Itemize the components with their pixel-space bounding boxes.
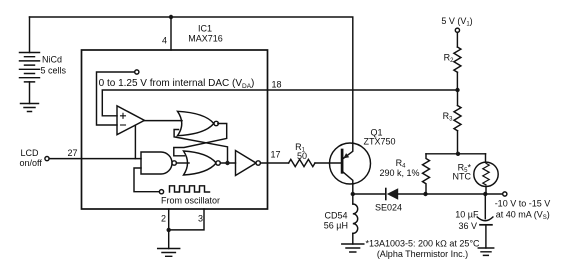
svg-text:SE024: SE024 — [375, 203, 402, 213]
wire comparator enable from LCD line — [134, 125, 136, 158]
wire R3 to divider node — [457, 131, 459, 154]
svg-text:on/off: on/off — [20, 158, 43, 168]
ground under capacitor — [478, 248, 493, 255]
resistor R3 — [454, 106, 461, 131]
wire diode to R4 node — [398, 193, 425, 195]
wire 5V terminal to R2 — [455, 28, 459, 32]
LCD on/off terminal — [45, 157, 49, 161]
resistor R1 — [289, 159, 315, 166]
ground under inductor — [342, 244, 364, 252]
svg-text:MAX716: MAX716 — [188, 34, 223, 44]
svg-text:10 µF: 10 µF — [455, 210, 479, 220]
resistor R2 — [454, 47, 461, 72]
svg-text:50: 50 — [297, 151, 307, 161]
wire G2 output to inverter — [220, 162, 235, 164]
resistor R4 — [423, 154, 430, 194]
node junction NTC bottom / cap — [483, 192, 487, 196]
oscillator square wave — [170, 186, 210, 192]
wire pin 2 / pin 3 to ground — [169, 209, 204, 230]
svg-text:NiCd: NiCd — [42, 55, 62, 65]
wire NAND lower input from oscillator — [134, 168, 159, 192]
svg-text:36 V: 36 V — [458, 221, 477, 231]
ground under IC — [158, 249, 180, 257]
svg-text:at 40 mA (VS): at 40 mA (VS) — [496, 210, 550, 222]
svg-text:27: 27 — [68, 148, 78, 158]
node junction R4 bottom — [423, 192, 427, 196]
wire G2 output feedback to G1 lower input — [174, 130, 227, 162]
ground under battery — [21, 104, 39, 112]
wire battery-sense pin 18 to comparator + input — [102, 90, 457, 116]
svg-text:4: 4 — [162, 36, 167, 46]
wire top rail of R4 / NTC — [426, 153, 486, 155]
wire R1 to Q1 base — [315, 162, 342, 164]
svg-text:2: 2 — [161, 214, 166, 224]
svg-text:ZTX750: ZTX750 — [364, 137, 396, 147]
wire G1 output to latch cross (to G2 upper input) — [174, 124, 227, 156]
svg-text:3: 3 — [198, 214, 203, 224]
thermistor R5 NTC — [485, 154, 487, 162]
transistor Q1 ZTX750 — [330, 143, 371, 184]
svg-text:*13A1003-5: 200 kΩ at 25°C: *13A1003-5: 200 kΩ at 25°C — [365, 239, 480, 249]
collector lead — [343, 172, 353, 194]
svg-text:NTC: NTC — [453, 172, 472, 182]
IC U1 box MAX716 — [82, 50, 268, 209]
svg-text:IC1: IC1 — [198, 24, 212, 34]
wire NAND output to NOR G2 — [176, 162, 189, 164]
node junction top rail / pin4 — [169, 15, 173, 19]
wire pin 17 to R1 — [260, 162, 288, 164]
inductor L1 CD54 — [352, 194, 354, 204]
wire pin 4 stub — [170, 17, 172, 50]
node junction R2 R3 sense — [455, 88, 459, 92]
NAND gate G3 — [141, 152, 172, 174]
capacitor C1 — [484, 194, 486, 219]
wire comparator output to NOR G1 — [144, 120, 182, 122]
terminal DAC output — [135, 70, 139, 74]
wire DAC to comparator inverting input — [97, 72, 135, 125]
emitter lead with arrow — [343, 143, 352, 159]
oscillator terminal — [159, 190, 163, 194]
svg-text:56 µH: 56 µH — [324, 221, 348, 231]
battery B1 — [29, 17, 31, 53]
wire top rail from battery to Q1 emitter — [30, 17, 353, 143]
svg-text:0 to 1.25 V from internal DAC: 0 to 1.25 V from internal DAC (VDA) — [99, 78, 255, 90]
NOR gate G1 (top) — [178, 111, 214, 135]
svg-text:From oscillator: From oscillator — [161, 196, 220, 206]
wire bottom rail R4 to NTC to terminal — [426, 193, 503, 195]
op-amp comparator U1a — [117, 106, 144, 135]
svg-text:CD54: CD54 — [324, 211, 347, 221]
svg-text:-10 V to -15 V: -10 V to -15 V — [495, 199, 551, 209]
wire LCD pin 27 to NAND input — [49, 158, 141, 160]
svg-text:18: 18 — [272, 80, 282, 90]
NOR gate G2 (bottom) — [184, 151, 217, 175]
svg-text:17: 17 — [271, 150, 281, 160]
diode D1 SE024 — [385, 189, 387, 200]
svg-text:(Alpha Thermistor Inc.): (Alpha Thermistor Inc.) — [377, 249, 468, 259]
wire sense node to R3 — [457, 90, 459, 106]
svg-text:290 k, 1%: 290 k, 1% — [379, 168, 419, 178]
node junction R3 bottom — [456, 152, 460, 156]
wire collector rail to diode — [353, 193, 386, 195]
inverter G4 — [236, 151, 257, 176]
terminal Vout — [503, 192, 507, 196]
node junction latch output — [225, 161, 229, 165]
wire R2 to sense node — [456, 72, 458, 90]
node junction collector — [351, 192, 355, 196]
svg-text:5 cells: 5 cells — [41, 66, 67, 76]
svg-text:LCD: LCD — [21, 148, 40, 158]
